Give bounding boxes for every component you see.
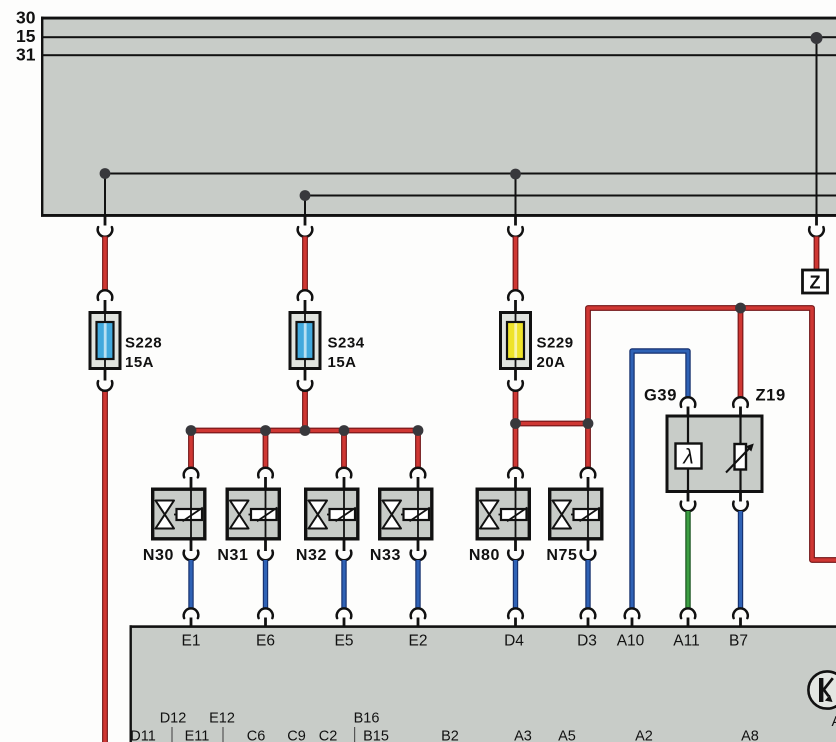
wire red below S234 <box>302 391 308 431</box>
pin stub above N80 <box>514 477 517 489</box>
connector above N30 <box>184 468 199 478</box>
valve N80 <box>477 488 529 541</box>
connector D4 <box>508 608 523 618</box>
valve N75 <box>550 488 602 541</box>
red bus to injectors <box>191 431 418 469</box>
red bus drop N32 core <box>342 431 346 469</box>
connector above N75 <box>581 468 596 478</box>
wire red box to Z <box>814 237 820 271</box>
pin stub below S229 <box>514 369 517 381</box>
wire red below S228 core <box>103 391 107 742</box>
Z19 internal pin line <box>739 416 741 492</box>
pin stub above N33 <box>417 477 420 489</box>
junction node on line 15 x816.5 <box>811 32 823 44</box>
wire red box to S234 <box>302 237 308 291</box>
svg-text:15A: 15A <box>125 354 154 371</box>
wire blue N33 to E2 <box>415 560 420 609</box>
connector below box S228 <box>98 227 113 237</box>
junction node on line B x305 <box>300 190 311 201</box>
inner bus line A <box>105 173 836 175</box>
pin stub above N30 <box>190 477 193 489</box>
junction node red bus N33 <box>413 425 424 436</box>
pin stub below N30 <box>190 540 193 551</box>
wire green G39 to A11 <box>685 511 690 609</box>
svg-text:Z19: Z19 <box>756 387 786 405</box>
separator tick 1 <box>171 727 172 742</box>
wire red box to Z core <box>815 237 819 271</box>
pin stub below N75 <box>587 540 590 551</box>
connector E1 <box>184 608 199 618</box>
svg-text:N80: N80 <box>469 547 500 564</box>
connector above N33 <box>411 468 426 478</box>
vertical drop wire x305 <box>304 196 306 216</box>
svg-text:A5: A5 <box>558 729 576 742</box>
fuse S234 <box>290 313 320 369</box>
blue n-link A10 riser <box>632 351 688 609</box>
vertical drop wire x515.5 <box>515 174 517 215</box>
separator tick 3 <box>354 727 355 742</box>
bus box bottom edge <box>41 214 836 217</box>
G39 internal pin line <box>687 416 689 492</box>
svg-text:G39: G39 <box>644 387 677 405</box>
svg-text:N31: N31 <box>217 547 248 564</box>
red bus drop N32 <box>341 431 347 469</box>
svg-text:E2: E2 <box>409 633 428 650</box>
svg-text:A: A <box>832 714 836 730</box>
connector below fuse S229 <box>508 381 523 391</box>
pin stub Z feed <box>815 216 818 226</box>
red link horizontal S229 <box>516 424 589 469</box>
pin stub above N31 <box>264 477 267 489</box>
fuse S229 <box>501 313 531 369</box>
svg-text:S229: S229 <box>537 335 574 352</box>
wire red box to S234 core <box>303 237 307 291</box>
valve N32 <box>306 488 358 541</box>
junction node red bus N32 <box>339 425 350 436</box>
connector below fuse S228 <box>98 381 113 391</box>
pin stub A10 <box>631 618 634 628</box>
wire blue N30 to E1 <box>188 560 193 609</box>
pin stub above S228 <box>104 300 107 312</box>
connector below N32 <box>337 551 352 561</box>
valve N31 <box>227 488 279 541</box>
pin stub below N32 <box>343 540 346 551</box>
svg-text:A2: A2 <box>635 729 653 742</box>
connector below box S234 <box>298 227 313 237</box>
connector above N80 <box>508 468 523 478</box>
svg-text:E6: E6 <box>256 633 275 650</box>
svg-text:N75: N75 <box>546 547 577 564</box>
svg-text:B15: B15 <box>363 729 389 742</box>
junction node red link N75 <box>583 418 594 429</box>
vertical drop wire x816.5 <box>816 38 818 215</box>
connector above fuse S234 <box>298 290 313 300</box>
connector E6 <box>258 608 273 618</box>
junction node on line A x515.5 <box>510 169 521 180</box>
svg-text:E11: E11 <box>185 729 210 742</box>
junction node red bus N30 <box>186 425 197 436</box>
svg-text:30: 30 <box>16 8 36 28</box>
ECU box fill <box>130 627 836 742</box>
wire red box to S228 core <box>103 237 107 291</box>
connector above G39 <box>681 397 696 407</box>
svg-text:C9: C9 <box>287 729 306 742</box>
wire blue N32 to E5 <box>341 560 346 609</box>
pin stub below S228 <box>104 369 107 381</box>
svg-text:A11: A11 <box>673 633 699 650</box>
svg-text:C2: C2 <box>319 729 338 742</box>
wire red box to S229 core <box>514 237 518 291</box>
inner bus line B <box>305 195 836 197</box>
red bus drop N31 core <box>264 431 268 469</box>
pin stub above S234 <box>304 300 307 312</box>
wire red below S234 core <box>303 391 307 431</box>
wire blue N80 to D4 <box>513 560 518 609</box>
pin stub E6 <box>264 618 267 628</box>
bus bar box fill <box>43 18 836 216</box>
red bus to injectors core <box>191 431 418 469</box>
pin stub below G39 <box>687 492 690 502</box>
junction node red bus N31 <box>260 425 271 436</box>
connector above fuse S229 <box>508 290 523 300</box>
wire red below S228 <box>102 391 108 742</box>
red drop to Z19 core <box>739 308 743 398</box>
junction node red bus feed <box>300 425 311 436</box>
connector below N31 <box>258 551 273 561</box>
svg-text:N33: N33 <box>370 547 401 564</box>
svg-text:S234: S234 <box>328 335 365 352</box>
pin stub D4 <box>514 618 517 628</box>
pin stub S229 feed <box>514 216 517 226</box>
red link below S229 <box>513 391 519 469</box>
fuse S228 <box>90 313 120 369</box>
connector below N33 <box>411 551 426 561</box>
connector below fuse S234 <box>298 381 313 391</box>
pin stub below N31 <box>264 540 267 551</box>
svg-text:B2: B2 <box>441 729 459 742</box>
pin stub S234 feed <box>304 216 307 226</box>
svg-text:N30: N30 <box>143 547 174 564</box>
svg-text:A8: A8 <box>741 729 759 742</box>
valve N30 <box>153 488 205 541</box>
connector above N31 <box>258 468 273 478</box>
K arrow logo <box>808 671 836 708</box>
svg-text:D12: D12 <box>160 711 187 727</box>
pin stub below S234 <box>304 369 307 381</box>
heater arrow Z19 <box>726 446 752 473</box>
svg-text:λ: λ <box>682 446 693 469</box>
connector below box S229 <box>508 227 523 237</box>
connector below Z19 <box>733 502 748 512</box>
svg-text:D3: D3 <box>577 633 597 650</box>
connector E5 <box>337 608 352 618</box>
svg-text:E12: E12 <box>209 711 235 727</box>
svg-text:E5: E5 <box>335 633 354 650</box>
pin stub E1 <box>190 618 193 628</box>
svg-text:15: 15 <box>16 26 36 46</box>
wire blue Z19 to B7 <box>738 511 743 609</box>
connector A11 <box>681 608 696 618</box>
ECU box left edge <box>130 625 132 742</box>
junction node red rail Z19 <box>735 303 746 314</box>
pin stub below Z19 <box>739 492 742 502</box>
lambda sensor square G39 <box>676 444 702 469</box>
connector above Z19 <box>733 397 748 407</box>
pin stub above N32 <box>343 477 346 489</box>
pin stub above Z19 <box>739 407 742 417</box>
bus box top edge (terminal 30 line) <box>41 17 836 20</box>
red bus drop N31 <box>263 431 269 469</box>
connector below box Z <box>809 227 824 237</box>
svg-text:20A: 20A <box>537 354 566 371</box>
terminal box Z <box>803 270 828 293</box>
pin stub S228 feed <box>104 216 107 226</box>
connector below G39 <box>681 502 696 512</box>
svg-text:E1: E1 <box>182 633 201 650</box>
junction node on line A x105 <box>100 168 111 179</box>
red link below S229 core <box>514 391 518 469</box>
connector above N32 <box>337 468 352 478</box>
svg-text:D4: D4 <box>504 633 524 650</box>
vertical drop wire x105 <box>104 174 106 216</box>
svg-text:Z: Z <box>810 272 821 292</box>
svg-text:B7: B7 <box>729 633 748 650</box>
red drop to Z19 <box>738 308 744 398</box>
ECU box top edge <box>130 625 836 628</box>
connector below N30 <box>184 551 199 561</box>
pin stub above N75 <box>587 477 590 489</box>
wire blue N31 to E6 <box>263 560 268 609</box>
pin stub above S229 <box>514 300 517 312</box>
pin stub D3 <box>587 618 590 628</box>
pin stub E5 <box>343 618 346 628</box>
connector above fuse S228 <box>98 290 113 300</box>
connector below N75 <box>581 551 596 561</box>
separator tick 2 <box>222 727 223 742</box>
red riser to top rail core <box>588 308 836 560</box>
pin stub E2 <box>417 618 420 628</box>
red riser to top rail <box>588 308 836 560</box>
valve N33 <box>380 488 432 541</box>
svg-text:31: 31 <box>16 44 36 64</box>
G39/Z19 component box <box>667 416 762 492</box>
pin stub A11 <box>687 618 690 628</box>
connector below N80 <box>508 551 523 561</box>
terminal 31 line <box>42 54 836 56</box>
svg-text:C6: C6 <box>247 729 266 742</box>
red link horizontal S229 core <box>516 424 589 469</box>
bus box left edge <box>41 17 43 217</box>
svg-text:D11: D11 <box>130 729 156 742</box>
pin stub B7 <box>739 618 742 628</box>
connector D3 <box>581 608 596 618</box>
wire red box to S229 <box>513 237 519 291</box>
connector E2 <box>411 608 426 618</box>
wire blue N75 to D3 <box>585 560 590 609</box>
svg-text:A10: A10 <box>617 633 645 650</box>
junction node red link N80 <box>510 418 521 429</box>
svg-text:N32: N32 <box>296 547 327 564</box>
svg-text:15A: 15A <box>328 354 357 371</box>
svg-text:B16: B16 <box>354 711 380 727</box>
heater resistor Z19 <box>735 444 747 470</box>
terminal 15 line <box>42 36 836 38</box>
pin stub below N33 <box>417 540 420 551</box>
connector A10 <box>625 608 640 618</box>
svg-text:S228: S228 <box>125 335 162 352</box>
connector B7 <box>733 608 748 618</box>
pin stub above G39 <box>687 407 690 417</box>
wire red box to S228 <box>102 237 108 291</box>
svg-text:A3: A3 <box>514 729 532 742</box>
pin stub below N80 <box>514 540 517 551</box>
